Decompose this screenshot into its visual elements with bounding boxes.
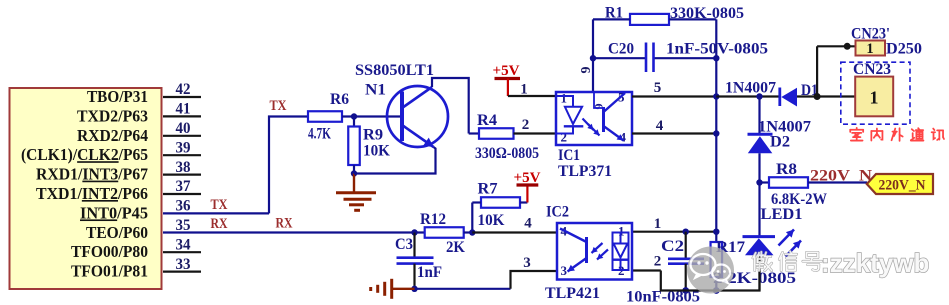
svg-text:5: 5 [654, 80, 662, 96]
svg-text:41: 41 [176, 101, 191, 118]
svg-text:2: 2 [561, 130, 568, 145]
svg-text:34: 34 [176, 236, 191, 253]
svg-text:2: 2 [522, 117, 530, 133]
svg-text:38: 38 [176, 159, 191, 176]
svg-text:TFO01/P81: TFO01/P81 [71, 262, 148, 281]
svg-text:R7: R7 [478, 181, 498, 198]
svg-text:C3: C3 [395, 236, 413, 253]
svg-text:10K: 10K [478, 212, 506, 229]
svg-text:TX: TX [211, 197, 228, 213]
svg-text:TX: TX [270, 98, 287, 114]
svg-text:2K: 2K [446, 239, 466, 256]
svg-text:220V N: 220V N [810, 168, 873, 185]
svg-text:R6: R6 [330, 91, 349, 108]
svg-text:CN23': CN23' [851, 26, 890, 43]
svg-text:1: 1 [866, 41, 873, 57]
svg-text:10K: 10K [363, 143, 391, 160]
svg-text:IC1: IC1 [558, 147, 580, 164]
svg-text:C20: C20 [608, 41, 634, 58]
svg-text:220V_N: 220V_N [879, 178, 926, 194]
svg-text:TLP371: TLP371 [558, 163, 612, 180]
svg-text:R8: R8 [776, 161, 797, 178]
svg-text:TFO00/P80: TFO00/P80 [71, 242, 148, 261]
svg-text:1: 1 [870, 88, 879, 108]
svg-text:SS8050LT1: SS8050LT1 [355, 62, 434, 79]
svg-text:N1: N1 [365, 82, 386, 99]
svg-text:TXD1/INT2/P66: TXD1/INT2/P66 [36, 184, 148, 203]
svg-text:1nF-50V-0805: 1nF-50V-0805 [666, 41, 768, 58]
svg-text:RXD1/INT3/P67: RXD1/INT3/P67 [36, 165, 148, 184]
svg-text:RX: RX [211, 216, 228, 232]
svg-text:40: 40 [176, 120, 191, 137]
svg-text:R9: R9 [363, 127, 383, 144]
svg-text:D2: D2 [770, 134, 790, 151]
svg-text:+5V: +5V [514, 170, 541, 186]
svg-text:4: 4 [524, 216, 532, 232]
svg-text:RXD2/P64: RXD2/P64 [77, 126, 148, 145]
svg-text:R4: R4 [477, 112, 497, 129]
svg-text:3: 3 [561, 263, 568, 278]
svg-text:TBO/P31: TBO/P31 [87, 87, 148, 106]
svg-text:4: 4 [656, 118, 664, 134]
svg-text:1N4007: 1N4007 [725, 80, 776, 97]
svg-text:R12: R12 [420, 211, 446, 228]
svg-text:IC2: IC2 [546, 204, 569, 221]
svg-text:+5V: +5V [493, 63, 520, 79]
svg-text:2: 2 [654, 254, 662, 270]
svg-text:330Ω-0805: 330Ω-0805 [475, 145, 539, 162]
svg-text:TXD2/P63: TXD2/P63 [77, 106, 148, 125]
svg-text:RX: RX [276, 216, 293, 232]
svg-text:37: 37 [176, 178, 191, 195]
svg-text:CN23: CN23 [853, 61, 891, 78]
svg-text:1: 1 [561, 91, 568, 106]
svg-text:LED1: LED1 [761, 206, 803, 223]
svg-text:1nF: 1nF [417, 264, 442, 281]
svg-text:33: 33 [176, 256, 191, 273]
svg-text:3: 3 [523, 255, 531, 271]
svg-text:C2: C2 [661, 238, 684, 255]
svg-text:1: 1 [520, 82, 528, 98]
svg-text::zzktywb: :zzktywb [821, 248, 929, 278]
svg-text:42: 42 [176, 81, 191, 98]
svg-text:TLP421: TLP421 [545, 285, 600, 302]
svg-text:39: 39 [176, 139, 191, 156]
svg-text:6: 6 [577, 67, 592, 74]
svg-text:TEO/P60: TEO/P60 [86, 223, 148, 242]
svg-text:4.7K: 4.7K [308, 126, 331, 143]
svg-text:(CLK1)/CLK2/P65: (CLK1)/CLK2/P65 [21, 145, 148, 164]
svg-text:INT0/P45: INT0/P45 [80, 203, 148, 222]
svg-text:D250: D250 [886, 41, 922, 58]
svg-text:36: 36 [176, 198, 191, 215]
svg-text:1: 1 [654, 216, 662, 232]
